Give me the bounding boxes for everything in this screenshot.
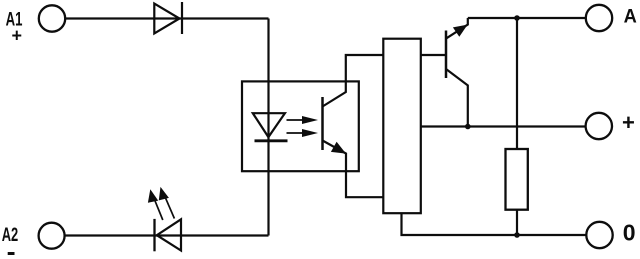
transistor Q1 base line (445, 31, 448, 79)
phototransistor base (321, 97, 324, 150)
wire block to + terminal (421, 125, 586, 127)
light arrow 1 (287, 116, 319, 124)
transistor Q1 emitter arrow (453, 25, 468, 37)
junction collector / + wire (465, 124, 471, 130)
wire A2 terminal to corner (65, 234, 269, 236)
junction top rail / resistor (514, 15, 520, 21)
wire block to transistor base (421, 54, 446, 56)
terminal A2 polarity - (8, 252, 15, 255)
opto LED cathode bar (255, 139, 288, 142)
opto LED triangle (253, 113, 285, 137)
svg-text:+: + (622, 110, 635, 135)
resistor R1 top wire (516, 18, 518, 149)
phototransistor emitter arrow (331, 142, 346, 154)
terminal A1 (39, 5, 65, 31)
junction bottom rail / resistor (514, 232, 520, 238)
transistor Q1 collector (446, 69, 468, 127)
indicator LED cathode bar (153, 219, 155, 251)
wire A1 terminal to corner (65, 17, 268, 19)
svg-text:0: 0 (623, 219, 636, 245)
transistor Q1 emitter (446, 18, 468, 39)
resistor R1 bottom wire (516, 210, 518, 235)
light arrow 2 (287, 129, 319, 137)
resistor R1 body (506, 149, 528, 210)
top rail to terminal A (468, 17, 586, 19)
svg-text:A2: A2 (2, 224, 19, 246)
wire corner down through opto LED (267, 19, 269, 236)
terminal A2 (39, 223, 65, 249)
phototransistor collector (323, 55, 384, 107)
diode D1 triangle (154, 4, 179, 34)
terminal 0 (586, 222, 612, 248)
terminal A (586, 5, 612, 31)
amplifier block bottom output to 0 rail (402, 213, 587, 235)
indicator LED light arrow 2 (159, 187, 175, 219)
optocoupler box U1 (242, 81, 359, 171)
indicator LED triangle (157, 219, 181, 250)
svg-text:A: A (624, 6, 637, 28)
terminal + (586, 113, 612, 139)
amplifier block (383, 39, 421, 214)
indicator LED light arrow 1 (148, 189, 163, 220)
svg-text:+: + (12, 26, 23, 46)
diode D1 cathode bar (181, 2, 183, 34)
phototransistor emitter (323, 141, 384, 198)
